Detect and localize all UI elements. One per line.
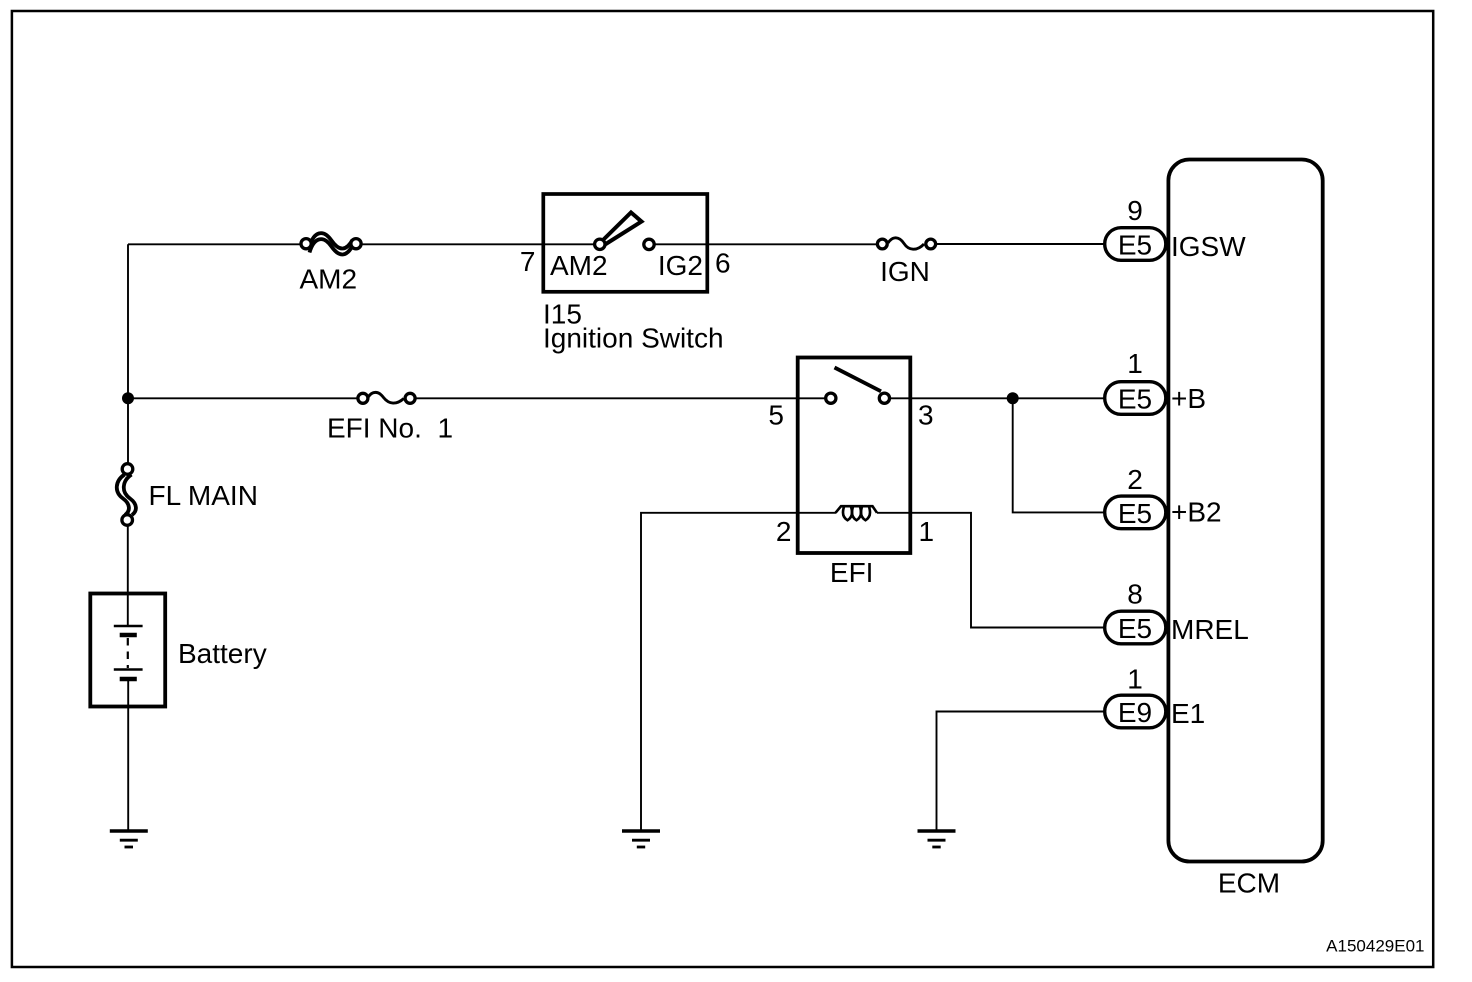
svg-text:E9: E9 [1118,697,1152,728]
wire relay coil pin2 to ground [641,513,836,831]
svg-text:A150429E01: A150429E01 [1326,937,1424,956]
svg-text:2: 2 [776,516,792,547]
wire battery to ground [127,679,129,831]
svg-text:5: 5 [768,400,784,431]
wire row A: AM2 fusible link to ignition switch AM2 contact [356,243,600,245]
svg-text:+B2: +B2 [1171,497,1222,528]
svg-text:6: 6 [715,248,731,279]
connector E5 +B2 [1105,496,1166,529]
wire FL MAIN to battery [127,524,129,626]
svg-text:IGSW: IGSW [1171,231,1246,262]
svg-text:E5: E5 [1118,384,1152,415]
svg-text:Ignition Switch: Ignition Switch [543,323,724,354]
wire row B: relay contact 3 to +B connector [885,397,1105,399]
svg-text:1: 1 [919,516,935,547]
fusible link FL MAIN [117,464,136,526]
svg-text:8: 8 [1127,579,1143,610]
svg-text:2: 2 [1127,464,1143,495]
ignition switch lever [602,213,642,245]
svg-text:3: 3 [918,400,934,431]
battery plate long thin 1 [114,625,143,628]
battery dashed link [127,638,129,668]
svg-text:+B: +B [1171,383,1206,414]
fusible link AM2 [301,233,361,254]
connector E5 +B [1105,382,1166,415]
relay blade [835,368,882,392]
node junction dot left bus row B [122,392,134,404]
ground EFI coil [622,831,660,847]
relay box EFI [798,358,911,554]
battery plate short thick 2 [120,677,137,681]
battery box [90,594,165,707]
svg-text:IG2: IG2 [658,250,703,281]
ground E1 [918,831,956,847]
ignition switch contact AM2 [595,239,605,249]
connector E9 E1 [1105,695,1166,728]
wire row A: ignition switch IG2 contact to IGN fuse [649,243,882,245]
svg-text:9: 9 [1127,195,1143,226]
relay coil [836,506,878,520]
wire row A: IGN fuse to IGSW connector [931,243,1104,245]
svg-text:AM2: AM2 [550,250,608,281]
fuse EFI No. 1 [358,392,415,403]
svg-text:E1: E1 [1171,698,1205,729]
wire relay coil pin1 to MREL connector [877,513,1104,628]
svg-text:FL MAIN: FL MAIN [149,480,258,511]
wire junction to +B2 connector [1013,398,1104,512]
battery plate short thick 1 [120,633,137,637]
wire row B: bus to EFI No.1 fuse [128,397,363,399]
fuse IGN [877,238,935,249]
svg-text:E5: E5 [1118,613,1152,644]
ignition switch box I15 [543,194,707,292]
svg-text:IGN: IGN [880,256,930,287]
wire left bus vertical [127,244,129,464]
svg-text:1: 1 [1127,664,1143,695]
svg-text:1: 1 [1127,348,1143,379]
svg-text:E5: E5 [1118,230,1152,261]
relay contact 3 [879,393,889,403]
svg-text:7: 7 [520,246,536,277]
node junction dot row B to +B2 branch [1007,392,1019,404]
wire row A: left bus to AM2 fusible link [128,243,306,245]
svg-text:MREL: MREL [1171,614,1249,645]
wire row B: fuse to relay contact 5 [410,397,831,399]
svg-text:EFI No. 1: EFI No. 1 [327,413,453,444]
connector E5 IGSW [1105,228,1166,261]
svg-text:Battery: Battery [178,638,267,669]
connector E5 MREL [1105,611,1166,644]
ignition switch contact IG2 [644,239,654,249]
svg-text:AM2: AM2 [300,264,358,295]
battery plate long thin 2 [114,668,143,671]
svg-text:EFI: EFI [830,557,874,588]
relay contact 5 [826,393,836,403]
svg-text:E5: E5 [1118,498,1152,529]
svg-text:ECM: ECM [1218,868,1280,899]
wire E1 connector to ground [937,712,1105,831]
ground battery [110,831,148,847]
ECM box [1168,160,1322,862]
